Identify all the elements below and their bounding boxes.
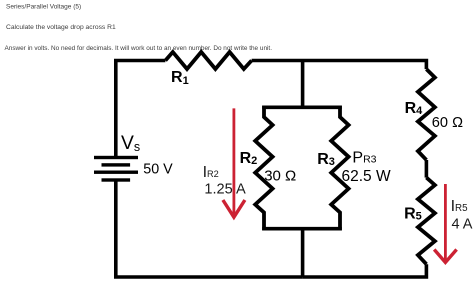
node: bottom junction stub (301, 229, 305, 277)
wire: bottom rail right segment (303, 264, 427, 277)
svg-text:Answer in volts. No need for d: Answer in volts. No need for decimals. I… (5, 45, 273, 52)
node: top junction stub (301, 61, 305, 108)
wire: top rail right segment (252, 61, 427, 70)
wire: parallel box top edge (262, 106, 342, 110)
wire: left rail top segment and top rail to R1 (116, 61, 166, 158)
wire: R4 to R5 segment (425, 160, 429, 178)
battery VS plate 2 (short) (102, 163, 131, 166)
svg-text:60 Ω: 60 Ω (432, 115, 463, 131)
svg-text:4 A: 4 A (452, 216, 473, 232)
resistor R2 (255, 106, 272, 231)
svg-text:62.5 W: 62.5 W (342, 168, 391, 185)
resistor R4 (418, 69, 435, 160)
wire: left rail bottom segment and bottom rail left (116, 181, 303, 277)
current arrow IR5 (434, 184, 456, 262)
svg-text:Series/Parallel Voltage (5): Series/Parallel Voltage (5) (6, 4, 81, 11)
resistor R3 (331, 106, 348, 231)
resistor R5 (418, 178, 435, 265)
wire: parallel box bottom edge (262, 227, 342, 231)
battery VS plate 3 (long) (94, 171, 138, 174)
resistor R1 (165, 52, 251, 69)
svg-text:50 V: 50 V (143, 161, 173, 177)
battery VS plate 4 (short) (102, 178, 131, 181)
svg-text:Calculate the voltage drop acr: Calculate the voltage drop across R1 (6, 24, 116, 31)
svg-text:1.25 A: 1.25 A (204, 181, 246, 197)
current arrow IR2 (223, 108, 245, 217)
svg-text:30 Ω: 30 Ω (264, 168, 296, 185)
battery VS plate 1 (long) (94, 156, 138, 159)
